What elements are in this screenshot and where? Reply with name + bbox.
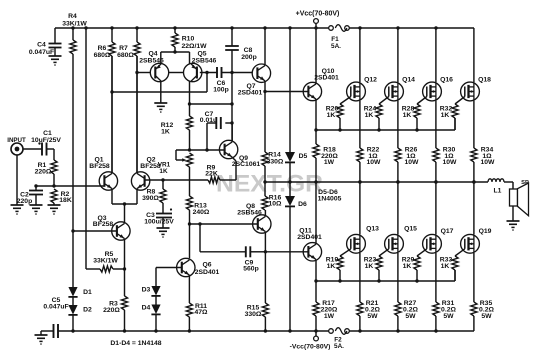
svg-text:D1-D4 = 1N4148: D1-D4 = 1N4148 (110, 340, 161, 347)
svg-text:5W: 5W (405, 313, 416, 320)
svg-text:220Ω: 220Ω (35, 169, 52, 176)
svg-text:10Ω: 10Ω (268, 201, 282, 208)
svg-text:1K: 1K (161, 129, 170, 136)
svg-text:5W: 5W (367, 313, 378, 320)
svg-text:1K: 1K (365, 112, 374, 119)
svg-text:D3: D3 (142, 287, 151, 294)
svg-text:Q6: Q6 (202, 262, 211, 269)
svg-text:D2: D2 (83, 307, 92, 314)
svg-text:C8: C8 (244, 47, 253, 54)
svg-text:10uF/25V: 10uF/25V (31, 137, 61, 144)
svg-text:R4: R4 (68, 13, 77, 20)
svg-text:47Ω: 47Ω (194, 309, 208, 316)
svg-text:NEXT.GR: NEXT.GR (216, 171, 323, 198)
svg-text:2SD401: 2SD401 (195, 269, 220, 276)
svg-text:22K: 22K (205, 171, 218, 178)
svg-text:+Vcc(70-80V): +Vcc(70-80V) (296, 11, 340, 18)
svg-text:2SD401: 2SD401 (297, 234, 322, 241)
svg-text:22Ω/1W: 22Ω/1W (181, 43, 207, 50)
svg-text:2SB546: 2SB546 (237, 210, 262, 217)
svg-text:SP: SP (521, 180, 529, 186)
svg-text:330Ω: 330Ω (267, 159, 284, 166)
svg-text:Q16: Q16 (440, 77, 453, 84)
svg-text:2SD401: 2SD401 (238, 90, 263, 97)
svg-text:10W: 10W (367, 159, 382, 166)
svg-text:2SC1061: 2SC1061 (232, 161, 261, 168)
svg-text:0.01u: 0.01u (200, 117, 217, 124)
svg-text:1K: 1K (327, 263, 336, 270)
svg-text:200p: 200p (241, 54, 257, 61)
svg-text:1N4005: 1N4005 (318, 196, 342, 203)
svg-text:680Ω: 680Ω (94, 52, 111, 59)
svg-text:INPUT: INPUT (7, 137, 26, 144)
svg-text:R10: R10 (182, 36, 195, 43)
svg-text:Q5: Q5 (197, 51, 206, 58)
svg-text:D6: D6 (298, 201, 307, 208)
svg-text:240Ω: 240Ω (193, 209, 210, 216)
svg-text:5W: 5W (481, 313, 492, 320)
svg-text:Q15: Q15 (404, 226, 417, 233)
svg-text:1K: 1K (327, 112, 336, 119)
svg-text:100p: 100p (213, 87, 229, 94)
svg-text:5A.: 5A. (331, 43, 341, 50)
svg-text:18K: 18K (59, 197, 72, 204)
svg-text:Q14: Q14 (402, 77, 415, 84)
svg-text:560p: 560p (243, 266, 259, 273)
svg-text:5W: 5W (443, 313, 454, 320)
svg-text:-Vcc(70-80V): -Vcc(70-80V) (290, 344, 331, 351)
svg-text:1K: 1K (159, 168, 168, 175)
svg-text:D1: D1 (83, 289, 92, 296)
svg-text:10W: 10W (405, 159, 420, 166)
svg-text:R14: R14 (268, 152, 281, 159)
svg-text:Q13: Q13 (366, 226, 379, 233)
svg-text:1K: 1K (403, 112, 412, 119)
svg-text:R6: R6 (98, 45, 107, 52)
svg-text:5A.: 5A. (334, 343, 344, 350)
svg-text:390Ω: 390Ω (142, 195, 159, 202)
svg-text:33K/1W: 33K/1W (93, 258, 118, 265)
svg-text:D4: D4 (142, 305, 151, 312)
svg-text:2SD401: 2SD401 (314, 75, 339, 82)
svg-text:0.047uF: 0.047uF (29, 49, 54, 56)
svg-text:1K: 1K (441, 263, 450, 270)
svg-text:10W: 10W (443, 159, 458, 166)
svg-text:Q4: Q4 (148, 51, 157, 58)
svg-text:Q19: Q19 (479, 228, 492, 235)
svg-text:1K: 1K (403, 263, 412, 270)
svg-text:220p: 220p (17, 198, 33, 205)
svg-text:0.047uF: 0.047uF (43, 304, 68, 311)
svg-text:C4: C4 (37, 42, 46, 49)
svg-text:R7: R7 (119, 45, 128, 52)
svg-text:C1: C1 (43, 130, 52, 137)
svg-text:2SB546: 2SB546 (139, 58, 164, 65)
svg-text:Q18: Q18 (478, 77, 491, 84)
svg-text:2SB546: 2SB546 (192, 58, 217, 65)
svg-text:BF258: BF258 (93, 221, 114, 228)
svg-text:Q17: Q17 (441, 228, 454, 235)
svg-text:F1: F1 (331, 36, 339, 43)
svg-text:330Ω: 330Ω (245, 311, 262, 318)
svg-text:BF258: BF258 (89, 163, 110, 170)
svg-text:10W: 10W (481, 159, 496, 166)
svg-text:1W: 1W (324, 313, 335, 320)
svg-text:Q12: Q12 (364, 77, 377, 84)
svg-text:1W: 1W (324, 159, 335, 166)
svg-text:L1: L1 (494, 188, 502, 195)
svg-text:D5: D5 (299, 153, 308, 160)
svg-text:1K: 1K (441, 112, 450, 119)
svg-text:100u/25V: 100u/25V (144, 219, 174, 226)
svg-text:680Ω: 680Ω (117, 52, 134, 59)
svg-text:33K/1W: 33K/1W (62, 21, 87, 28)
svg-text:220Ω: 220Ω (103, 307, 120, 314)
svg-text:1K: 1K (365, 263, 374, 270)
